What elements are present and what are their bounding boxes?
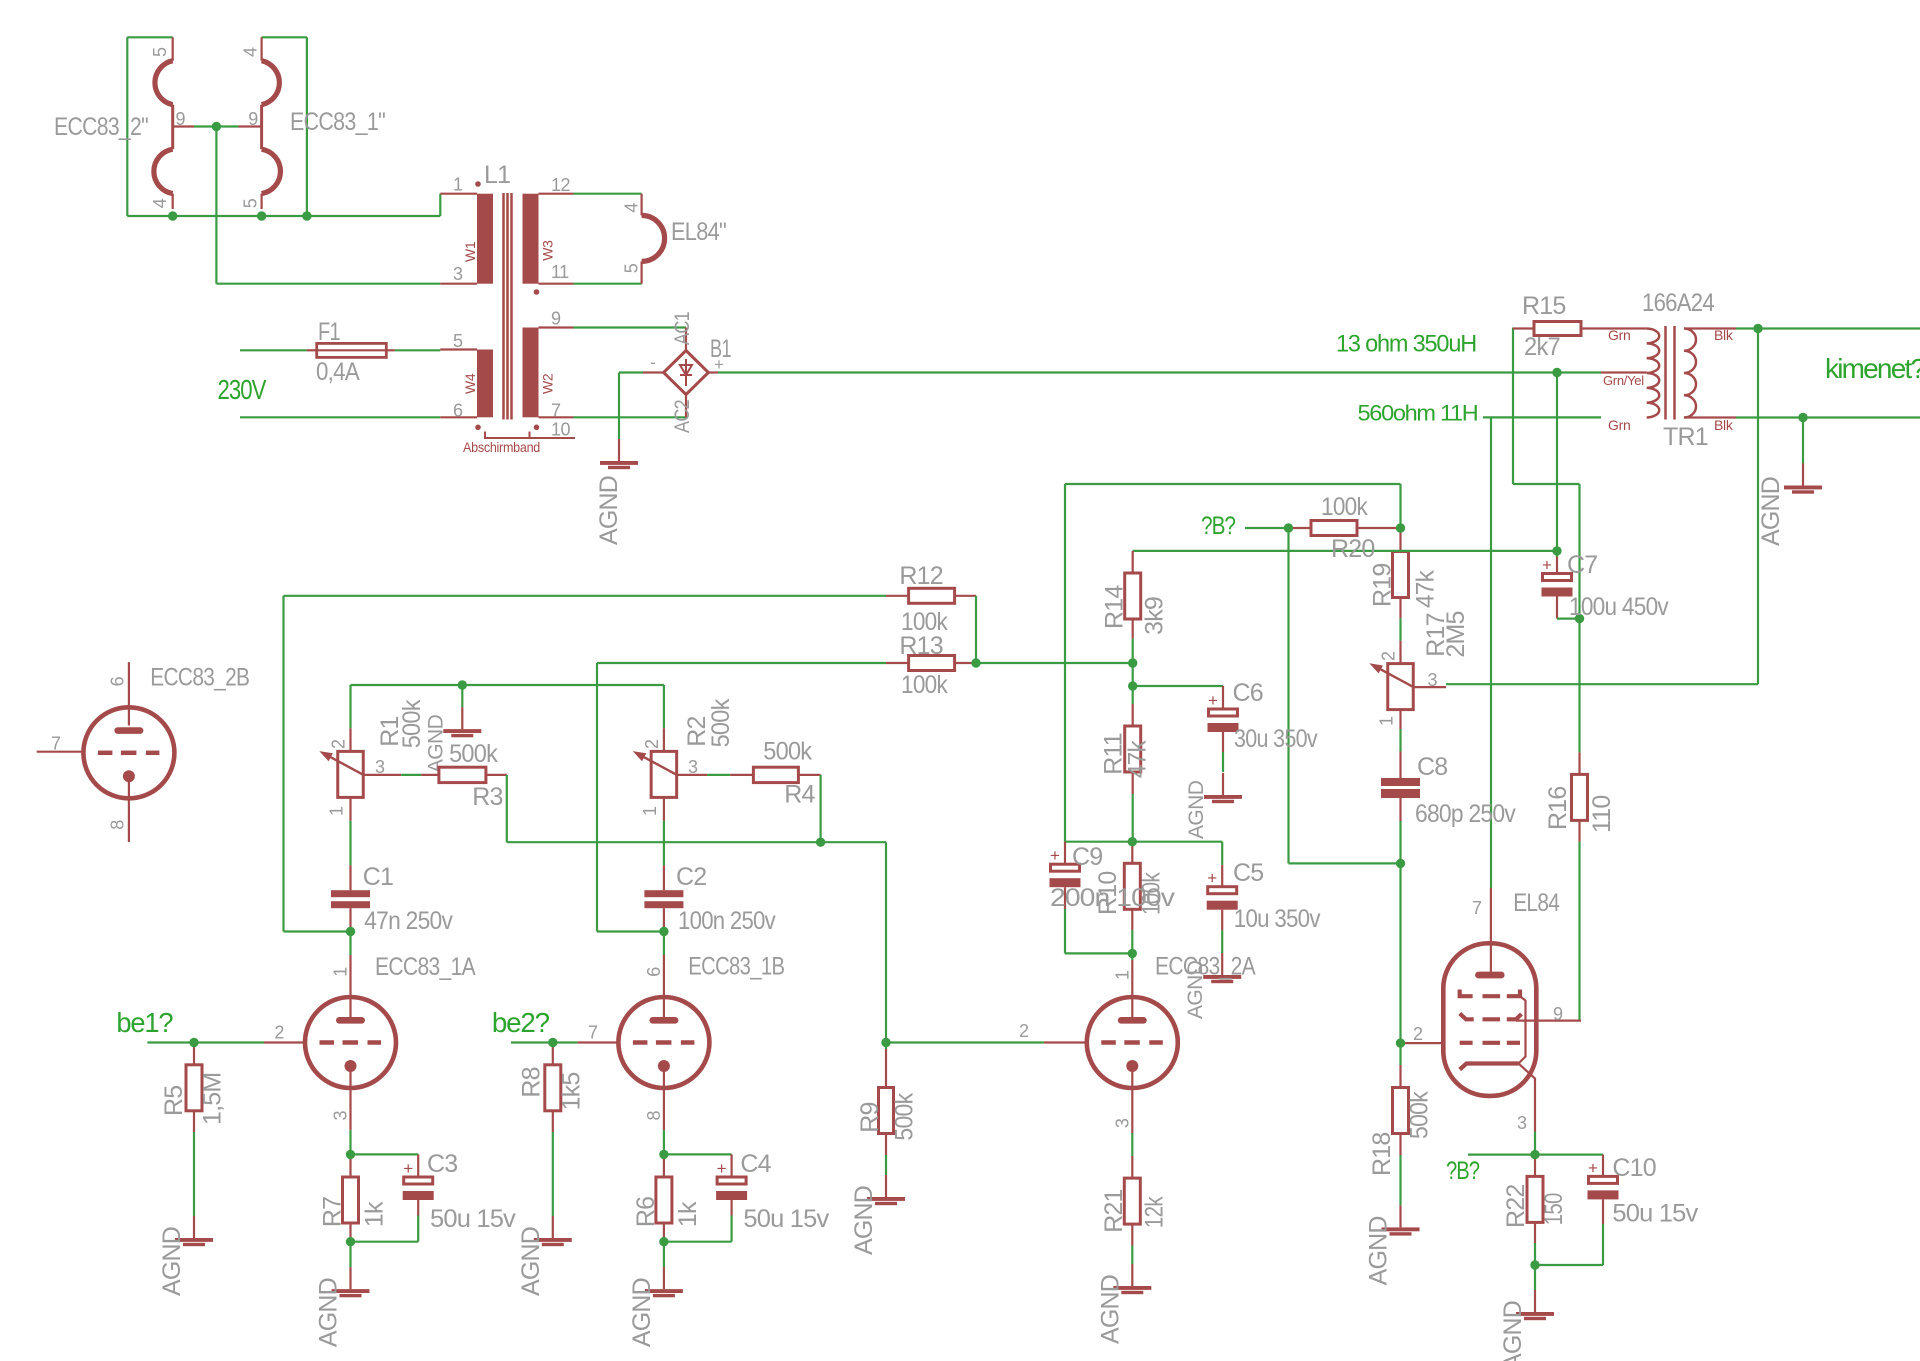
svg-text:C7: C7 [1567, 551, 1597, 579]
svg-text:50u 15v: 50u 15v [743, 1205, 829, 1233]
svg-text:13 ohm 350uH: 13 ohm 350uH [1336, 331, 1476, 358]
svg-text:1,5M: 1,5M [198, 1073, 226, 1125]
svg-text:2k7: 2k7 [1524, 333, 1560, 361]
svg-text:7: 7 [588, 1023, 598, 1043]
svg-text:2: 2 [1379, 651, 1399, 661]
svg-text:230V: 230V [218, 374, 267, 405]
svg-text:9: 9 [1553, 1004, 1563, 1024]
svg-text:R7: R7 [319, 1197, 347, 1227]
svg-text:150: 150 [1540, 1193, 1568, 1225]
svg-text:0,4A: 0,4A [316, 358, 360, 386]
svg-text:4: 4 [150, 198, 170, 208]
svg-text:100n 250v: 100n 250v [678, 907, 776, 935]
svg-text:EL84: EL84 [1513, 889, 1560, 917]
svg-text:1: 1 [1377, 716, 1397, 726]
svg-text:C2: C2 [676, 863, 706, 891]
svg-text:Blk: Blk [1714, 417, 1734, 433]
svg-text:5: 5 [453, 331, 463, 351]
svg-text:W3: W3 [540, 240, 556, 261]
svg-text:9: 9 [248, 109, 258, 129]
svg-text:10: 10 [551, 420, 571, 440]
svg-text:2: 2 [274, 1023, 284, 1043]
svg-text:L1: L1 [484, 161, 510, 189]
svg-text:+: + [717, 1159, 727, 1178]
svg-text:?B?: ?B? [1201, 512, 1235, 540]
svg-text:6: 6 [644, 967, 664, 977]
svg-text:2: 2 [1019, 1021, 1029, 1041]
svg-text:W2: W2 [540, 373, 556, 394]
svg-text:1: 1 [327, 806, 347, 816]
svg-text:Grn: Grn [1608, 417, 1630, 433]
svg-text:1: 1 [640, 806, 660, 816]
svg-text:C1: C1 [363, 863, 393, 891]
svg-text:+: + [1542, 556, 1552, 575]
svg-text:R14: R14 [1101, 585, 1129, 629]
svg-text:R9: R9 [856, 1102, 884, 1132]
svg-text:+: + [1050, 846, 1060, 865]
svg-text:6: 6 [108, 676, 128, 686]
svg-text:R22: R22 [1502, 1185, 1530, 1228]
svg-text:R13: R13 [899, 632, 942, 660]
svg-text:R5: R5 [160, 1086, 188, 1116]
svg-text:AGND: AGND [850, 1186, 878, 1255]
svg-text:3: 3 [375, 757, 385, 777]
svg-text:9: 9 [176, 109, 186, 129]
svg-text:8: 8 [108, 820, 128, 830]
svg-text:AGND: AGND [1185, 780, 1208, 839]
svg-text:Grn: Grn [1608, 327, 1630, 343]
svg-text:R19: R19 [1369, 564, 1397, 607]
svg-text:kimenet?: kimenet? [1825, 353, 1920, 384]
svg-text:R8: R8 [517, 1067, 545, 1097]
svg-text:ECC83_1A: ECC83_1A [375, 953, 476, 981]
svg-text:C4: C4 [740, 1150, 771, 1178]
svg-text:+: + [714, 355, 724, 374]
svg-text:1k: 1k [361, 1201, 389, 1227]
svg-text:3: 3 [1428, 670, 1438, 690]
svg-text:500k: 500k [763, 738, 812, 766]
svg-text:3: 3 [1517, 1113, 1527, 1133]
svg-text:500k: 500k [398, 699, 426, 748]
svg-text:AC2: AC2 [671, 400, 694, 433]
svg-text:200n 100v: 200n 100v [1050, 884, 1175, 912]
svg-text:11: 11 [551, 262, 569, 282]
svg-text:AGND: AGND [424, 714, 447, 773]
svg-text:110: 110 [1588, 796, 1616, 833]
svg-text:Blk: Blk [1714, 327, 1734, 343]
svg-text:EL84": EL84" [671, 218, 726, 246]
svg-text:C8: C8 [1417, 753, 1447, 781]
svg-text:Grn/Yel: Grn/Yel [1603, 373, 1644, 388]
svg-text:R12: R12 [899, 562, 942, 590]
svg-text:Abschirmband: Abschirmband [463, 439, 540, 455]
svg-text:+: + [1207, 869, 1217, 888]
svg-text:3: 3 [688, 757, 698, 777]
svg-text:AGND: AGND [315, 1278, 343, 1347]
svg-text:3: 3 [331, 1111, 351, 1121]
svg-text:ECC83_2A: ECC83_2A [1155, 953, 1256, 981]
svg-text:50u 15v: 50u 15v [430, 1205, 516, 1233]
svg-text:AGND: AGND [158, 1227, 186, 1296]
svg-text:C10: C10 [1612, 1154, 1655, 1182]
svg-text:8: 8 [644, 1111, 664, 1121]
svg-text:2: 2 [642, 739, 662, 749]
svg-text:5: 5 [150, 47, 170, 57]
svg-text:500k: 500k [891, 1092, 919, 1140]
svg-text:ECC83_1B: ECC83_1B [688, 953, 784, 981]
svg-text:F1: F1 [318, 318, 340, 346]
svg-text:+: + [403, 1159, 413, 1178]
svg-text:560ohm 11H: 560ohm 11H [1358, 401, 1478, 426]
svg-text:2: 2 [1413, 1024, 1423, 1044]
svg-text:500k: 500k [449, 740, 498, 768]
svg-text:AGND: AGND [1365, 1216, 1393, 1285]
svg-text:TR1: TR1 [1663, 423, 1708, 451]
svg-text:AC1: AC1 [671, 312, 694, 345]
svg-text:R3: R3 [472, 783, 502, 811]
svg-text:R16: R16 [1544, 787, 1572, 830]
svg-text:12k: 12k [1141, 1196, 1169, 1228]
svg-text:C3: C3 [427, 1150, 457, 1178]
svg-text:2M5: 2M5 [1442, 611, 1470, 657]
svg-text:10u 350v: 10u 350v [1234, 905, 1321, 933]
svg-text:be2?: be2? [492, 1007, 550, 1038]
svg-text:9: 9 [551, 308, 561, 328]
svg-text:100k: 100k [901, 671, 948, 699]
svg-text:6: 6 [453, 401, 463, 421]
svg-text:R6: R6 [632, 1197, 660, 1227]
svg-text:50u 15v: 50u 15v [1612, 1199, 1698, 1227]
svg-text:1: 1 [1113, 970, 1133, 980]
svg-text:2: 2 [329, 739, 349, 749]
svg-text:W4: W4 [462, 373, 478, 394]
svg-text:47k: 47k [1124, 740, 1152, 778]
svg-text:3k9: 3k9 [1140, 597, 1168, 635]
svg-text:7: 7 [1472, 898, 1482, 918]
svg-text:+: + [1208, 691, 1218, 710]
svg-text:1k5: 1k5 [557, 1072, 585, 1110]
svg-text:R4: R4 [784, 781, 815, 809]
svg-text:AGND: AGND [628, 1278, 656, 1347]
svg-text:AGND: AGND [1096, 1275, 1124, 1344]
svg-text:ECC83_2": ECC83_2" [54, 113, 148, 141]
svg-text:100u 450v: 100u 450v [1569, 593, 1669, 621]
svg-text:W1: W1 [462, 241, 478, 262]
svg-text:-: - [650, 353, 656, 372]
svg-text:47n 250v: 47n 250v [364, 907, 453, 935]
svg-text:1: 1 [453, 175, 463, 195]
svg-text:4: 4 [240, 47, 260, 57]
svg-text:+: + [1588, 1158, 1598, 1177]
svg-text:R20: R20 [1331, 535, 1374, 563]
svg-text:ECC83_1": ECC83_1" [290, 108, 385, 136]
svg-text:C9: C9 [1072, 843, 1102, 871]
svg-text:C6: C6 [1233, 679, 1263, 707]
svg-text:7: 7 [551, 401, 561, 421]
svg-text:R15: R15 [1522, 292, 1565, 320]
svg-text:1k: 1k [674, 1201, 702, 1227]
svg-text:12: 12 [551, 175, 571, 195]
svg-text:5: 5 [622, 263, 642, 273]
svg-text:AGND: AGND [1499, 1301, 1527, 1361]
svg-text:680p 250v: 680p 250v [1415, 800, 1516, 828]
svg-text:5: 5 [240, 198, 260, 208]
svg-text:500k: 500k [707, 698, 735, 747]
svg-text:7: 7 [51, 733, 61, 753]
svg-text:C5: C5 [1233, 859, 1263, 887]
svg-text:100k: 100k [1321, 493, 1368, 521]
svg-text:R18: R18 [1368, 1133, 1396, 1176]
svg-text:?B?: ?B? [1446, 1157, 1479, 1185]
svg-text:be1?: be1? [116, 1007, 173, 1038]
svg-text:3: 3 [1113, 1118, 1133, 1128]
svg-text:3: 3 [453, 264, 463, 284]
svg-text:AGND: AGND [517, 1227, 545, 1296]
svg-text:1: 1 [331, 967, 351, 977]
svg-text:ECC83_2B: ECC83_2B [150, 663, 249, 691]
svg-text:500k: 500k [1406, 1091, 1434, 1139]
svg-text:AGND: AGND [595, 476, 623, 545]
svg-text:30u 350v: 30u 350v [1234, 725, 1318, 753]
svg-text:47k: 47k [1412, 570, 1440, 608]
svg-text:R21: R21 [1100, 1189, 1128, 1232]
svg-text:166A24: 166A24 [1642, 289, 1715, 317]
svg-text:AGND: AGND [1757, 477, 1785, 546]
svg-text:4: 4 [622, 203, 642, 213]
